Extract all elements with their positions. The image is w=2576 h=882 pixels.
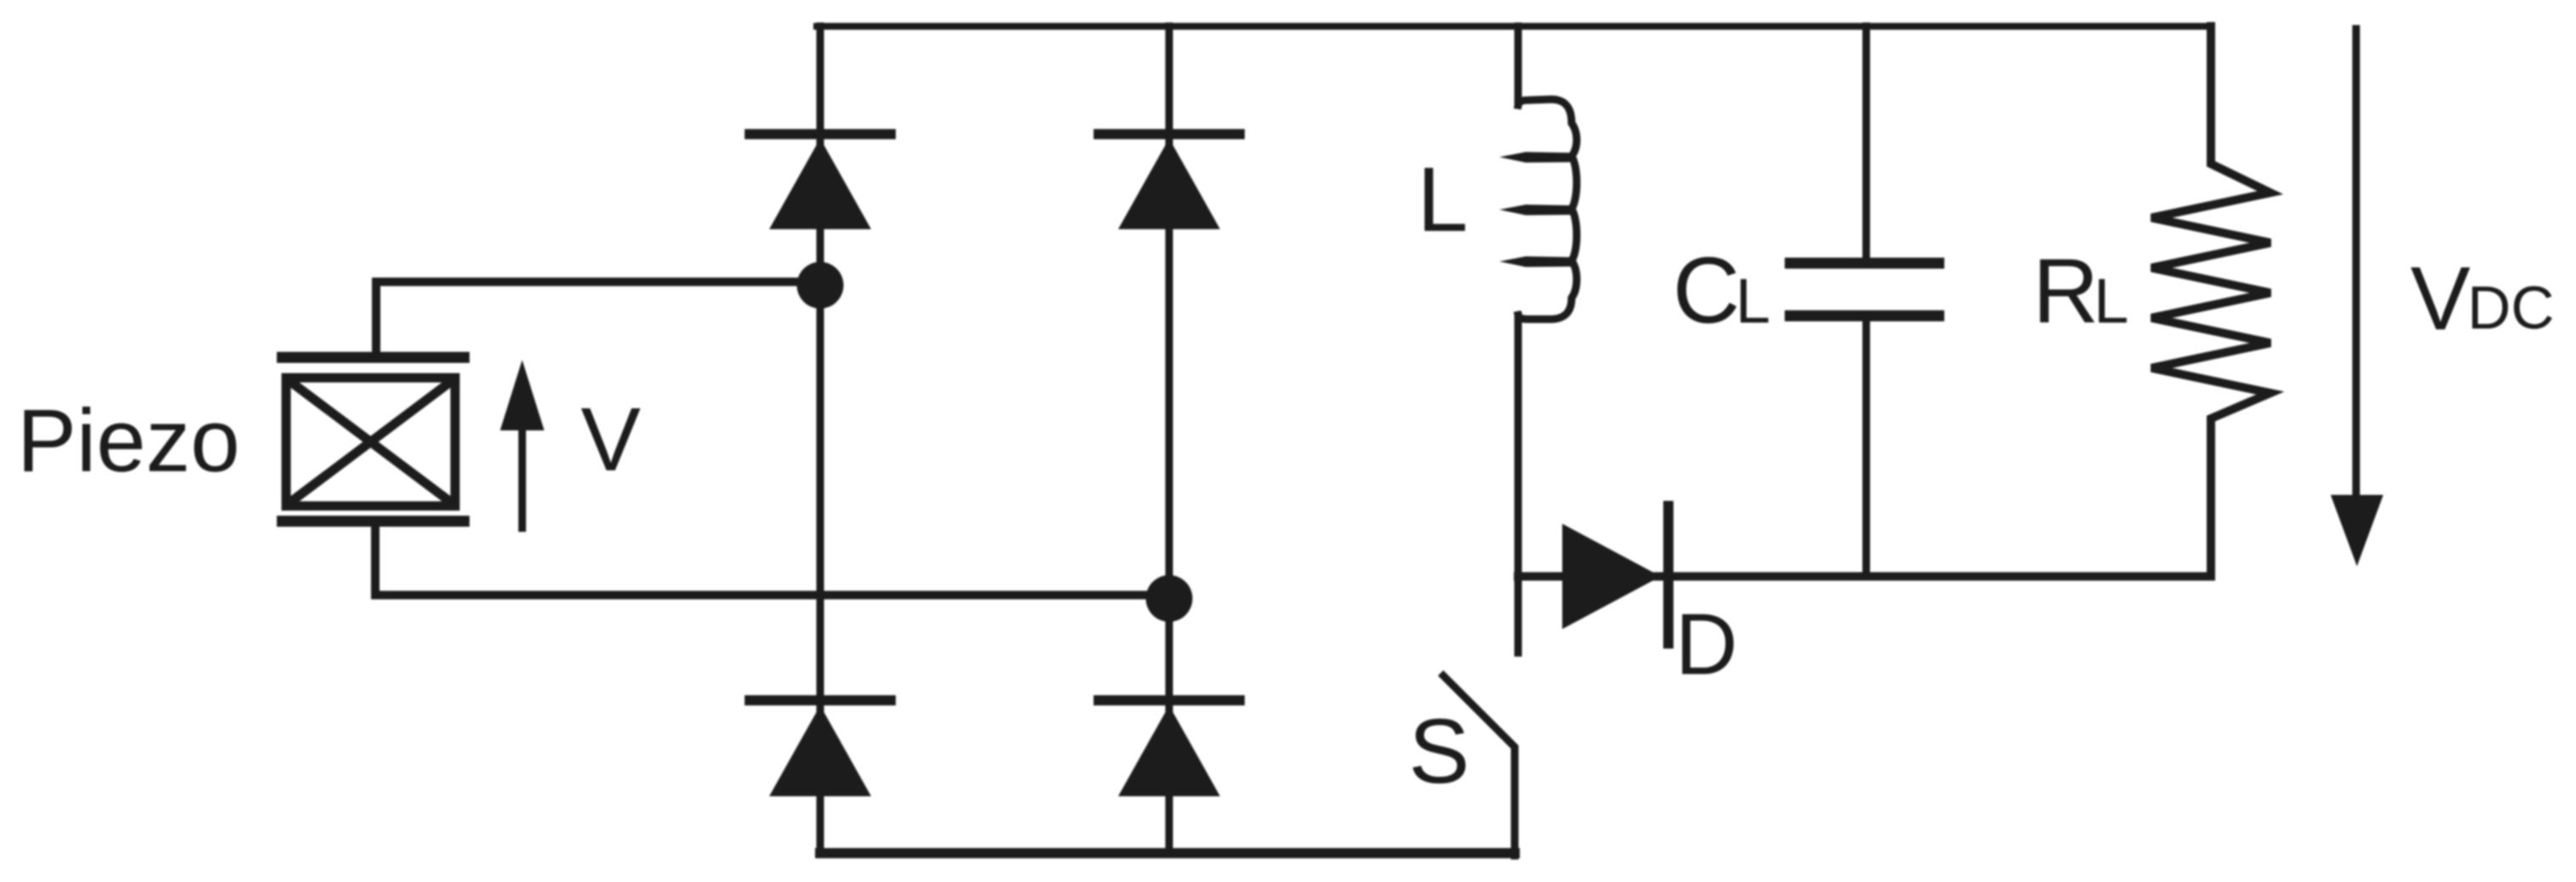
diode D1 top-left cathode bar — [745, 129, 896, 139]
inductor L coil — [1518, 99, 1577, 319]
svg-text:C: C — [1673, 239, 1740, 343]
svg-text:D: D — [1675, 596, 1738, 693]
svg-text:V: V — [2410, 249, 2471, 349]
diode D4 bottom-right triangle — [1118, 705, 1220, 796]
resistor RL with leads — [2151, 26, 2270, 576]
diode D cathode bar — [1663, 501, 1673, 649]
diode D2 top-right cathode bar — [1094, 129, 1245, 139]
piezo X cross — [289, 380, 453, 503]
VDC arrow line — [2353, 29, 2360, 509]
capacitor CL bottom lead — [1863, 321, 1870, 576]
voltage V arrow line — [519, 420, 526, 528]
capacitor CL top plate — [1785, 258, 1944, 269]
diode D4 bottom-right cathode bar — [1094, 695, 1245, 705]
diode D3 bottom-left triangle — [769, 705, 871, 796]
svg-text:S: S — [1409, 699, 1470, 802]
node A junction dot — [797, 262, 844, 309]
piezo transducer box — [286, 378, 455, 506]
inductor L coil loop mark 1 — [1499, 152, 1572, 163]
capacitor CL top lead — [1863, 26, 1870, 258]
svg-text:L: L — [2094, 266, 2129, 336]
wire bottom rail — [820, 848, 1515, 858]
svg-text:R: R — [2033, 239, 2099, 342]
piezo top electrode plate — [277, 352, 470, 363]
inductor L coil loop mark 2 — [1499, 205, 1572, 216]
wire inductor branch top — [1515, 26, 1522, 104]
wire top rail — [817, 23, 2211, 30]
capacitor CL bottom plate — [1785, 311, 1944, 322]
svg-text:L: L — [1417, 148, 1468, 250]
wire piezo bottom lead to node B — [375, 526, 1169, 595]
wire right bridge branch — [1166, 26, 1173, 852]
diode D3 bottom-left cathode bar — [745, 695, 896, 705]
svg-text:L: L — [1735, 266, 1770, 336]
wire piezo top lead to node A — [376, 282, 820, 351]
diode D2 top-right triangle — [1118, 138, 1220, 229]
switch S blade and pole — [1443, 676, 1515, 856]
svg-text:DC: DC — [2467, 275, 2555, 342]
wire inductor branch bottom (to switch gap) — [1515, 316, 1522, 653]
diode D triangle — [1562, 524, 1661, 629]
svg-text:V: V — [581, 390, 641, 490]
piezo bottom electrode plate — [277, 516, 470, 527]
VDC arrow head — [2331, 495, 2383, 566]
node B junction dot — [1146, 576, 1193, 622]
diode D1 top-left triangle — [769, 138, 871, 229]
wire left bridge branch — [817, 26, 824, 852]
inductor L coil loop mark 3 — [1499, 256, 1572, 267]
voltage V arrow head — [500, 360, 544, 430]
wire output bottom rail — [1518, 572, 2211, 581]
svg-text:Piezo: Piezo — [17, 391, 240, 491]
